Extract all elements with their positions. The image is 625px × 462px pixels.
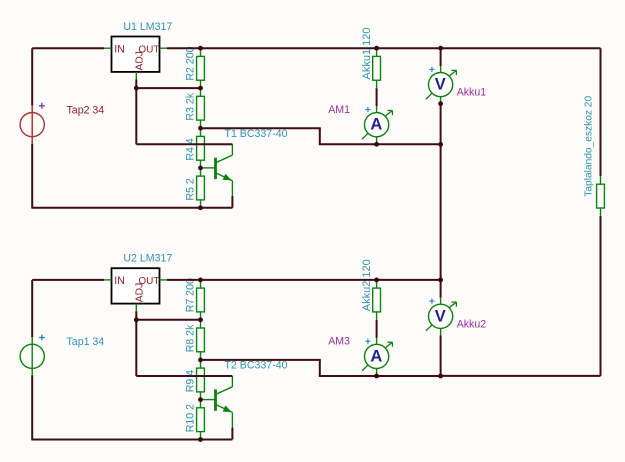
svg-text:Akku2 120: Akku2 120 xyxy=(361,259,373,311)
svg-text:ADJ: ADJ xyxy=(134,51,145,70)
svg-text:Akku1 120: Akku1 120 xyxy=(361,28,373,80)
svg-text:Taplalando_eszkoz 20: Taplalando_eszkoz 20 xyxy=(584,96,595,197)
svg-text:A: A xyxy=(370,116,382,134)
svg-text:R9 4: R9 4 xyxy=(185,370,197,392)
svg-text:V: V xyxy=(435,307,446,325)
svg-text:Tap2 34: Tap2 34 xyxy=(67,104,105,116)
svg-text:IN: IN xyxy=(114,275,125,287)
svg-text:R7 200: R7 200 xyxy=(185,278,197,312)
svg-text:U1 LM317: U1 LM317 xyxy=(123,21,172,33)
svg-text:U2 LM317: U2 LM317 xyxy=(123,253,172,265)
svg-text:Tap1 34: Tap1 34 xyxy=(67,336,105,348)
svg-text:R4 4: R4 4 xyxy=(185,138,197,160)
svg-text:R3 2k: R3 2k xyxy=(185,92,197,120)
svg-text:Akku2: Akku2 xyxy=(457,318,487,330)
svg-text:R10 2: R10 2 xyxy=(185,404,197,432)
svg-text:V: V xyxy=(435,76,446,94)
svg-text:ADJ: ADJ xyxy=(134,283,145,302)
svg-text:R5 2: R5 2 xyxy=(185,178,197,200)
svg-text:R2 200: R2 200 xyxy=(185,46,197,80)
svg-text:T2 BC337-40: T2 BC337-40 xyxy=(225,360,288,372)
svg-text:T1 BC337-40: T1 BC337-40 xyxy=(225,128,288,140)
svg-text:AM3: AM3 xyxy=(328,336,350,348)
svg-text:IN: IN xyxy=(114,44,125,56)
svg-text:R8 2k: R8 2k xyxy=(185,324,197,352)
svg-text:A: A xyxy=(370,347,382,365)
svg-text:AM1: AM1 xyxy=(328,104,350,116)
svg-text:Akku1: Akku1 xyxy=(457,87,487,99)
